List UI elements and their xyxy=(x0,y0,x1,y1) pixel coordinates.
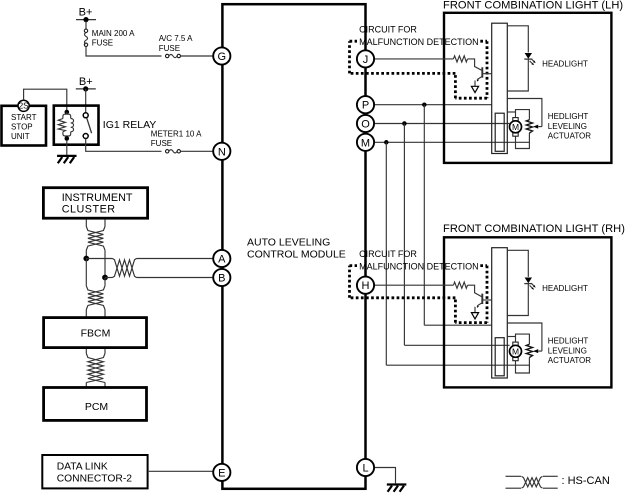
pin E xyxy=(213,464,230,481)
wire relay coil to ground xyxy=(66,141,68,156)
svg-text:PCM: PCM xyxy=(85,401,108,413)
connector 2S xyxy=(18,100,29,111)
power symbol B+ (battery feed to MAIN fuse) xyxy=(76,7,96,23)
connector (leveling actuator RH) xyxy=(495,338,504,376)
svg-text:H: H xyxy=(362,280,370,292)
twisted pair (above FBCM) xyxy=(86,286,105,310)
wire RH feed P xyxy=(424,324,491,326)
svg-text:FRONT COMBINATION LIGHT (LH): FRONT COMBINATION LIGHT (LH) xyxy=(443,0,623,11)
pin J xyxy=(357,50,374,67)
connector (lamp unit LH) xyxy=(492,23,508,153)
transistor (malfunction detection LH) xyxy=(475,67,492,86)
wire motor bottom rail LH xyxy=(516,133,530,149)
legend twisted pair symbol HS-CAN xyxy=(506,476,558,488)
motor M (leveling actuator LH) xyxy=(510,118,522,137)
svg-text:FRONT COMBINATION LIGHT (RH): FRONT COMBINATION LIGHT (RH) xyxy=(443,223,625,235)
label METER1 10 A FUSE xyxy=(151,130,202,149)
svg-text:2S: 2S xyxy=(19,102,30,111)
svg-text:FUSE: FUSE xyxy=(159,44,180,53)
svg-text:HEDLIGHT: HEDLIGHT xyxy=(548,112,589,121)
junction M branch xyxy=(384,140,389,145)
pin O xyxy=(357,115,374,132)
label CIRCUIT FOR MALFUNCTION DETECTION RH xyxy=(359,249,479,271)
wire relay switch to METER1 fuse xyxy=(86,139,162,152)
twisted pair (FBCM to PCM) xyxy=(86,354,105,383)
label HS-CAN xyxy=(562,475,610,487)
fuse METER1 10 A xyxy=(166,150,181,153)
pin A xyxy=(213,250,230,267)
svg-text:E: E xyxy=(218,467,225,479)
label HEDLIGHT LEVELING ACTUATOR RH xyxy=(548,337,591,365)
svg-text:FBCM: FBCM xyxy=(81,328,111,340)
junction P branch xyxy=(422,102,427,107)
potentiometer (position sensor LH) xyxy=(526,120,532,133)
ground (control module pin L) xyxy=(387,485,407,492)
pin N xyxy=(213,143,230,160)
wire motor bottom rail RH xyxy=(516,358,530,374)
wire M branch down to RH light xyxy=(385,142,387,365)
wire pin M to LH actuator sensor xyxy=(374,141,529,143)
label FBCM xyxy=(81,328,111,340)
junction O branch xyxy=(402,121,407,126)
wire CAN-H to pin A xyxy=(86,258,213,260)
pin P xyxy=(357,96,374,113)
label AUTO LEVELING CONTROL MODULE xyxy=(247,237,346,261)
FBCM box xyxy=(44,318,147,348)
pin L xyxy=(357,459,374,476)
svg-text:METER1 10 A: METER1 10 A xyxy=(151,130,202,139)
svg-text:MALFUNCTION DETECTION: MALFUNCTION DETECTION xyxy=(359,37,479,47)
wire A/C fuse to pin G xyxy=(181,55,214,57)
data link connector-2 box xyxy=(42,455,147,488)
svg-text:DATA LINK: DATA LINK xyxy=(57,461,108,472)
svg-text:A: A xyxy=(218,254,226,266)
wire 2S to relay coil xyxy=(24,89,67,110)
relay switch contact bottom xyxy=(83,134,88,139)
wiper arrow LH xyxy=(533,125,542,129)
fuse MAIN 200 A xyxy=(84,29,87,46)
wire resistor to transistor RH xyxy=(468,285,482,296)
ground (relay coil) xyxy=(57,156,77,163)
svg-text:CIRCUIT FOR: CIRCUIT FOR xyxy=(359,25,417,35)
potentiometer (position sensor RH) xyxy=(526,344,532,357)
label FRONT COMBINATION LIGHT (LH) xyxy=(443,0,623,11)
relay IG1 box xyxy=(54,106,99,145)
start stop unit box xyxy=(2,106,47,146)
svg-text:HEADLIGHT: HEADLIGHT xyxy=(542,59,588,68)
fuse A/C 7.5 A xyxy=(166,54,181,57)
relay coil (resistor and inductor in parallel) xyxy=(58,112,73,137)
svg-text:G: G xyxy=(218,51,227,63)
pin G xyxy=(213,47,230,64)
front combination light (RH) box xyxy=(444,237,611,387)
svg-text:B: B xyxy=(218,273,225,285)
svg-text:HEDLIGHT: HEDLIGHT xyxy=(548,337,589,346)
wire connector to motor supply LH xyxy=(507,111,515,113)
wire junctions down xyxy=(86,259,105,286)
wire connector to motor supply RH xyxy=(507,336,515,338)
wire P branch down to RH light xyxy=(423,105,425,326)
relay switch blade xyxy=(87,118,92,133)
wire CAN-H vertical to junction xyxy=(85,250,87,258)
wire pair into PCM xyxy=(86,383,105,387)
front combination light (LH) box xyxy=(444,13,611,163)
wire B+ to MAIN fuse xyxy=(85,21,87,30)
svg-text:N: N xyxy=(218,146,226,158)
wire wiper feedback RH xyxy=(507,323,542,351)
label IG1 RELAY xyxy=(103,119,157,131)
open arrow to ground LH xyxy=(471,86,478,92)
label HEDLIGHT LEVELING ACTUATOR LH xyxy=(548,112,591,140)
wire RH feed O xyxy=(404,344,509,346)
wire CAN pair instrument cluster down (right) xyxy=(104,220,106,227)
label HEADLIGHT RH xyxy=(542,284,588,293)
wire MAIN fuse to A/C fuse xyxy=(86,46,162,56)
connector (leveling actuator LH) xyxy=(495,113,504,151)
label MAIN 200 A FUSE xyxy=(92,29,135,48)
label HEADLIGHT LH xyxy=(542,59,588,68)
wire headlight loop RH xyxy=(507,250,528,315)
label START STOP UNIT xyxy=(11,113,37,141)
wire motor top rail LH xyxy=(516,110,530,120)
LED headlight RH xyxy=(524,278,535,290)
svg-text:L: L xyxy=(362,463,368,475)
svg-text:ACTUATOR: ACTUATOR xyxy=(548,356,591,365)
label INSTRUMENT CLUSTER xyxy=(62,192,133,216)
label DATA LINK CONNECTOR-2 xyxy=(57,461,133,484)
wire pin L to ground xyxy=(374,468,395,484)
wire pin to resistor LH xyxy=(374,58,453,60)
pin B xyxy=(213,269,230,286)
wire CAN pair instrument cluster down (left) xyxy=(85,220,87,227)
connector (lamp unit RH) xyxy=(492,248,508,378)
malfunction detection dashed box LH xyxy=(350,41,488,98)
wire resistor to transistor LH xyxy=(468,59,482,70)
wire FBCM down pair xyxy=(86,349,105,354)
svg-text:O: O xyxy=(361,119,370,131)
wire METER1 fuse to pin N xyxy=(181,150,214,152)
malfunction detection dashed box RH xyxy=(350,266,488,323)
svg-text:STOP: STOP xyxy=(11,122,33,131)
twisted pair (below instrument cluster) xyxy=(86,227,105,251)
svg-text:CIRCUIT FOR: CIRCUIT FOR xyxy=(359,249,417,259)
wiper arrow RH xyxy=(533,349,542,353)
svg-text:B+: B+ xyxy=(79,7,93,19)
resistor (malfunction detection LH) xyxy=(453,56,467,62)
svg-text:MALFUNCTION DETECTION: MALFUNCTION DETECTION xyxy=(359,261,479,271)
svg-text:ACTUATOR: ACTUATOR xyxy=(548,131,591,140)
wire CAN-L vertical to junction xyxy=(104,250,106,277)
svg-text:START: START xyxy=(11,113,37,122)
twisted pair (to pins A and B) xyxy=(113,259,137,278)
label FRONT COMBINATION LIGHT (RH) xyxy=(443,223,625,235)
svg-text:AUTO LEVELING: AUTO LEVELING xyxy=(247,237,330,249)
svg-text:M: M xyxy=(512,122,519,132)
wire pin P to LH light xyxy=(374,104,492,106)
PCM box xyxy=(44,388,147,421)
wire pin O to LH actuator motor xyxy=(374,123,510,125)
svg-text:INSTRUMENT: INSTRUMENT xyxy=(62,192,133,204)
svg-text:HEADLIGHT: HEADLIGHT xyxy=(542,284,588,293)
wire wiper feedback LH xyxy=(507,99,542,127)
wire RH feed M xyxy=(386,364,529,366)
svg-text:: HS-CAN: : HS-CAN xyxy=(562,475,610,487)
power symbol B+ (battery feed to IG1 relay) xyxy=(76,76,96,92)
svg-text:MAIN 200 A: MAIN 200 A xyxy=(92,29,135,38)
pin M xyxy=(357,134,374,151)
svg-text:CLUSTER: CLUSTER xyxy=(62,203,116,215)
label A/C 7.5 A FUSE xyxy=(159,34,193,53)
svg-text:J: J xyxy=(363,54,369,66)
resistor (malfunction detection RH) xyxy=(453,282,467,288)
svg-text:IG1 RELAY: IG1 RELAY xyxy=(103,119,157,131)
relay coil node bottom xyxy=(65,136,70,141)
svg-text:CONTROL MODULE: CONTROL MODULE xyxy=(247,249,346,261)
wire O branch down to RH light xyxy=(403,124,405,346)
svg-text:FUSE: FUSE xyxy=(151,139,172,148)
svg-text:B+: B+ xyxy=(79,76,93,88)
relay coil node top xyxy=(65,110,70,115)
svg-text:UNIT: UNIT xyxy=(11,132,30,141)
transistor (malfunction detection RH) xyxy=(475,294,492,313)
wire CAN-L to pin B xyxy=(105,277,213,279)
wire DLC-2 to pin E xyxy=(149,470,213,472)
label PCM xyxy=(85,401,108,413)
wire B+ to relay switch xyxy=(85,89,87,113)
svg-text:LEVELING: LEVELING xyxy=(548,346,587,355)
svg-text:M: M xyxy=(512,346,519,356)
svg-text:P: P xyxy=(362,100,369,112)
svg-text:FUSE: FUSE xyxy=(92,38,113,47)
relay switch contact top xyxy=(83,113,88,118)
open arrow to ground RH xyxy=(471,313,478,319)
pin H xyxy=(357,277,374,294)
junction (CAN-L to pin B) xyxy=(102,275,108,281)
svg-text:CONNECTOR-2: CONNECTOR-2 xyxy=(57,473,133,484)
wire headlight loop LH xyxy=(507,26,528,91)
wire pin to resistor RH xyxy=(374,284,453,286)
svg-text:A/C 7.5 A: A/C 7.5 A xyxy=(159,34,193,43)
svg-text:LEVELING: LEVELING xyxy=(548,122,587,131)
auto leveling control module box xyxy=(222,4,365,489)
junction (CAN-H to pin A) xyxy=(83,256,89,262)
wire CAN pair into FBCM xyxy=(86,310,105,317)
motor M (leveling actuator RH) xyxy=(510,342,522,361)
LED headlight LH xyxy=(524,53,535,65)
instrument cluster box xyxy=(43,188,147,219)
wire motor top rail RH xyxy=(516,334,530,344)
svg-text:M: M xyxy=(361,137,370,149)
label CIRCUIT FOR MALFUNCTION DETECTION LH xyxy=(359,25,479,47)
